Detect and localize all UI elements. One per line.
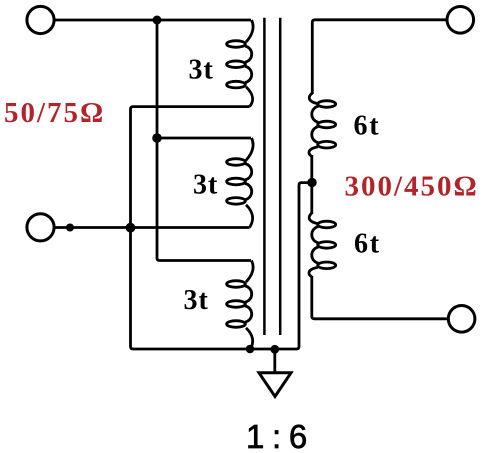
svg-text:3t: 3t xyxy=(189,55,214,86)
svg-text:6t: 6t xyxy=(354,228,381,259)
svg-text:300/450Ω: 300/450Ω xyxy=(345,171,479,203)
svg-text:3t: 3t xyxy=(184,285,209,316)
svg-text:50/75Ω: 50/75Ω xyxy=(4,97,105,129)
svg-text:6t: 6t xyxy=(354,110,381,141)
svg-text:3t: 3t xyxy=(193,169,218,200)
svg-text:1 : 6: 1 : 6 xyxy=(246,418,307,453)
